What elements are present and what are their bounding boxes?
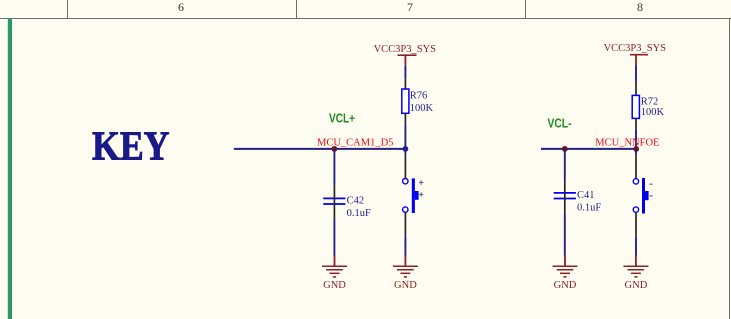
svg-text:100K: 100K — [641, 107, 665, 118]
svg-text:0.1uF: 0.1uF — [577, 203, 601, 214]
svg-text:C41: C41 — [577, 190, 595, 201]
svg-text:8: 8 — [637, 0, 643, 14]
svg-text:MCU_NNFOE: MCU_NNFOE — [595, 137, 659, 148]
svg-text:KEY: KEY — [92, 123, 170, 169]
svg-text:MCU_CAM1_D5: MCU_CAM1_D5 — [317, 137, 393, 148]
svg-text:C42: C42 — [347, 196, 365, 207]
svg-text:VCC3P3_SYS: VCC3P3_SYS — [604, 43, 667, 54]
svg-text:0.1uF: 0.1uF — [347, 208, 371, 219]
svg-text:100K: 100K — [410, 103, 434, 114]
svg-text:VCL-: VCL- — [548, 116, 572, 131]
svg-text:R72: R72 — [641, 97, 659, 108]
svg-text:7: 7 — [407, 0, 413, 14]
svg-text:R76: R76 — [410, 90, 428, 101]
svg-text:VCC3P3_SYS: VCC3P3_SYS — [374, 44, 437, 55]
svg-text:GND: GND — [323, 280, 346, 291]
svg-text:6: 6 — [178, 0, 184, 14]
svg-text:VCL+: VCL+ — [329, 110, 355, 125]
